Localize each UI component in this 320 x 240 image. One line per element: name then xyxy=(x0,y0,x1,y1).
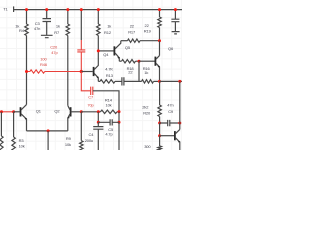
svg-text:10k: 10k xyxy=(106,102,112,107)
svg-text:1k: 1k xyxy=(107,24,111,29)
node R17/R19 junction xyxy=(158,39,161,42)
wire Q6 emitter column to R20 xyxy=(159,81,161,105)
resistor R20 xyxy=(142,104,161,116)
resistor R17 xyxy=(128,23,141,42)
svg-text:R17: R17 xyxy=(128,29,136,34)
wire Q7 base node down xyxy=(159,136,161,146)
wire node to Q7 base xyxy=(160,135,174,137)
resistor R12 xyxy=(97,24,112,36)
terminal T1 xyxy=(3,6,13,12)
resistor R4 xyxy=(15,23,28,35)
wire node F down to edge xyxy=(118,122,120,150)
node E (R12 / Q4 collector / Q5 base) xyxy=(97,49,100,52)
node output column top xyxy=(178,80,181,83)
wire C7 to column F elbow xyxy=(93,91,119,112)
node C5 left xyxy=(97,121,100,124)
capacitor C20 (red) xyxy=(50,40,85,72)
wire node G down xyxy=(138,61,140,81)
resistor R3 xyxy=(12,137,25,151)
resistor R7 xyxy=(54,23,69,35)
wire R19 leg xyxy=(159,10,161,41)
node Q1 base junction xyxy=(12,110,15,113)
node Q7 base xyxy=(158,134,161,137)
resistor R19 xyxy=(144,17,161,34)
svg-text:47n: 47n xyxy=(167,102,173,107)
node F on lower rail xyxy=(118,110,121,113)
resistor R16 xyxy=(142,66,154,83)
resistor R18 xyxy=(122,60,136,75)
svg-text:R12: R12 xyxy=(104,30,112,35)
wire column D lower xyxy=(80,112,82,141)
wire R13 to C10 xyxy=(115,80,122,82)
wire column A upper xyxy=(26,10,28,24)
capacitor C4 xyxy=(85,122,104,150)
transistor Q2 (mirrored) xyxy=(54,106,70,131)
wire Q1 emitter join row xyxy=(27,130,68,132)
svg-text:300: 300 xyxy=(144,144,151,149)
ground below C3 xyxy=(41,35,53,37)
resistor R9 xyxy=(65,136,83,151)
wire column C upper xyxy=(67,10,69,24)
svg-text:C20: C20 xyxy=(50,45,58,50)
wire column E upper xyxy=(97,10,99,24)
wire R46 to node D (red) xyxy=(45,71,82,73)
wire node to Q1 base xyxy=(14,111,20,113)
wire node E2 down xyxy=(97,112,99,123)
wire column D upper xyxy=(80,10,82,40)
wire collector row to R17 xyxy=(121,40,128,42)
capacitor C21 xyxy=(171,19,179,22)
wire Q4 emitter to R13 xyxy=(98,80,100,82)
svg-text:2k2: 2k2 xyxy=(142,104,149,109)
resistor R13 xyxy=(100,66,115,83)
wire node G to Q6 base xyxy=(139,60,155,62)
svg-text:R46: R46 xyxy=(40,62,48,67)
wire C10 to R16 xyxy=(124,80,142,82)
wire column C middle xyxy=(67,36,69,106)
transistor Q1 xyxy=(21,105,42,131)
resistor R2 (left edge) xyxy=(0,136,3,151)
wire left input column down xyxy=(0,112,2,136)
svg-text:47p: 47p xyxy=(51,50,58,55)
transistor Q7 xyxy=(175,129,180,150)
wire R18 to node G xyxy=(136,60,140,62)
svg-text:R20: R20 xyxy=(143,110,151,115)
capacitor C7 (red) xyxy=(87,87,94,108)
capacitor C9 xyxy=(160,102,180,126)
svg-text:100: 100 xyxy=(40,57,47,62)
wire node F down xyxy=(118,112,120,123)
svg-text:R13: R13 xyxy=(106,73,114,78)
resistor R46 (red) xyxy=(27,57,48,74)
node G (R18 / Q6 base) xyxy=(138,60,141,63)
node D (C20 / R46 / C7) xyxy=(80,70,83,73)
wire top-right cap leg xyxy=(174,10,176,32)
capacitor C10 xyxy=(122,77,124,85)
wire emitter row to right edge xyxy=(160,80,183,82)
wire node down to Q6 collector xyxy=(159,41,161,56)
wire Q2 base to node D2 xyxy=(71,111,82,113)
wire red elbow node D down to C7 xyxy=(81,72,90,91)
wire Q5 emitter to R18 xyxy=(119,60,121,62)
node R46 left on column A xyxy=(25,70,28,73)
wire rail D2 to E2 xyxy=(81,111,100,113)
wire tail down xyxy=(47,131,49,150)
capacitor C3 xyxy=(34,19,51,31)
svg-text:70p: 70p xyxy=(87,103,94,108)
node dots top rail xyxy=(25,8,177,11)
svg-text:10k: 10k xyxy=(65,142,71,147)
wire column A middle xyxy=(26,36,28,105)
svg-text:4.7K: 4.7K xyxy=(105,66,113,71)
ground below C21 xyxy=(172,32,180,34)
node D2 on lower rail xyxy=(80,110,83,113)
svg-text:10k: 10k xyxy=(19,144,25,149)
transistor Q4 xyxy=(94,51,110,82)
wire R16 to emitter node xyxy=(154,80,160,82)
wire Q6 column to Q7 base node xyxy=(159,123,161,136)
resistor R21 xyxy=(144,144,161,152)
node C9 right on output column xyxy=(178,122,181,125)
wire R14 to node F xyxy=(117,111,119,113)
node C5 right xyxy=(118,121,121,124)
node C9 left xyxy=(158,122,161,125)
svg-text:R19: R19 xyxy=(144,29,152,34)
svg-text:1k: 1k xyxy=(56,23,60,28)
node tail junction xyxy=(47,129,50,132)
wire R17 to node xyxy=(140,40,160,42)
wire lower rail red input xyxy=(0,111,14,113)
svg-text:1k: 1k xyxy=(144,70,148,75)
svg-text:4.7p: 4.7p xyxy=(105,132,113,137)
wire column E to node xyxy=(97,36,99,51)
node input edge xyxy=(0,110,3,113)
capacitor C5 xyxy=(98,119,119,136)
svg-text:200u: 200u xyxy=(85,138,93,143)
node Q6 emitter / R16 xyxy=(158,80,161,83)
wire top supply rail xyxy=(14,9,182,11)
wire R20 to node C9 xyxy=(159,117,161,124)
resistor R14 xyxy=(101,98,118,114)
wire node Q1 junction down xyxy=(13,112,15,137)
wire C3 leg xyxy=(46,10,48,36)
svg-text:47n: 47n xyxy=(34,26,40,31)
wire node D to Q4 base xyxy=(81,71,92,73)
transistor Q5 xyxy=(98,41,131,62)
wire output column xyxy=(179,81,181,129)
transistor Q6 xyxy=(155,46,174,81)
node E2 on lower rail xyxy=(97,110,100,113)
